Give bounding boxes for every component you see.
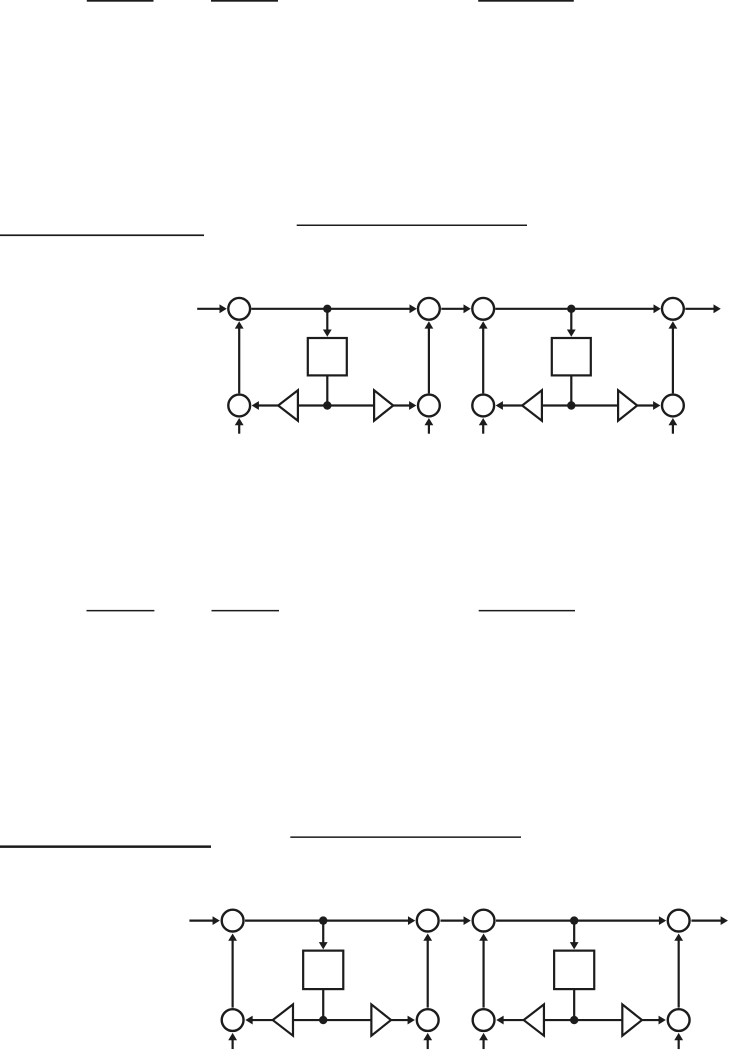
wire D1-S1- bottom-left segment (299, 404, 328, 406)
delay box D1-S1-Z (z^-1 register) (308, 338, 347, 375)
delay box D1-S2-Z (z^-1 register) (552, 338, 591, 375)
adder circle D1-S2-A (top-left summing node) (472, 298, 494, 320)
wire D1-S1- into bottom-left adder with arrowhead (258, 404, 279, 406)
wire D2-S1- into bottom-left adder with arrowhead (252, 1019, 273, 1021)
wire D1-S2- right feedback up-arrow (672, 327, 674, 393)
fraction bar (clipped equation, right) (478, 0, 574, 2)
wire D1-S1- junction-to-delay with arrowhead (326, 309, 328, 331)
arrow D2-S2- input below bottom-right adder (678, 1039, 680, 1049)
wire D1-S2- into bottom-left adder with arrowhead (502, 404, 523, 406)
wire D2-S2- left feedback up-arrow (482, 940, 484, 1008)
adder circle D2-S1-B (top-right summing node) (417, 910, 439, 932)
wire D2-S2- right feedback up-arrow (678, 940, 680, 1008)
node D1-S2-N1 (top pick-off junction) (567, 305, 575, 313)
arrow D2-S1- input below bottom-right adder (427, 1039, 429, 1049)
wire D2-S1- into bottom-right adder with arrowhead (391, 1019, 409, 1021)
adder circle D1-S1-A (top-left summing node) (228, 298, 250, 320)
wire D1-S1- bottom-right segment (327, 404, 374, 406)
adder circle D2-S2-A (top-left summing node) (473, 910, 495, 932)
wire D1-S2- delay-to-bottom-junction (570, 375, 572, 405)
node D2-S1-N1 (top pick-off junction) (319, 916, 327, 924)
node D2-S2-N2 (bottom junction) (570, 1016, 578, 1024)
wire D2-S1- junction-to-delay with arrowhead (322, 921, 324, 944)
wire D2-S2- into bottom-left adder with arrowhead (503, 1019, 524, 1021)
wire D1-S1- top signal line with arrowhead (251, 308, 410, 310)
arrow D2- input x(n) (189, 919, 213, 921)
arrow D2- cascade link between sections (440, 919, 464, 921)
gain triangle D1-S2-G1 (left multiplier, points left) (522, 390, 542, 420)
rule under caption text (right, upper) 2 (290, 836, 521, 838)
node D1-S1-N2 (bottom junction) (323, 401, 331, 409)
adder circle D2-S2-D (bottom-right summing node) (668, 1009, 690, 1031)
wire D1-S1- right feedback up-arrow (428, 327, 430, 393)
adder circle D2-S1-C (bottom-left summing node) (222, 1009, 244, 1031)
node D2-S2-N1 (top pick-off junction) (570, 916, 578, 924)
wire D2-S1- bottom-right segment (323, 1019, 371, 1021)
gain triangle D2-S2-G1 (left multiplier, points left) (524, 1004, 544, 1035)
fraction bar (clipped equation, left) (87, 0, 154, 2)
rule at left margin (lower) 2 (0, 845, 211, 848)
wire D2-S2- top signal line with arrowhead (496, 919, 660, 921)
wire D2-S2- delay-to-bottom-junction (573, 989, 575, 1020)
wire D2-S2- bottom-right segment (574, 1019, 622, 1021)
adder circle D1-S2-C (bottom-left summing node) (472, 395, 494, 417)
arrow D1-S1- input below bottom-left adder (238, 424, 240, 434)
wire D2-S1- bottom-left segment (294, 1019, 324, 1021)
wire D1-S1- into bottom-right adder with arrowhead (393, 404, 410, 406)
wire D2-S1- right feedback up-arrow (427, 940, 429, 1008)
wire D2-S2- into bottom-right adder with arrowhead (642, 1019, 660, 1021)
fraction bar (equation row, middle) (212, 610, 280, 612)
node D2-S1-N2 (bottom junction) (319, 1016, 327, 1024)
gain triangle D2-S2-G2 (right multiplier, points right) (622, 1004, 642, 1035)
wire D1-S2- top signal line with arrowhead (495, 308, 654, 310)
adder circle D2-S1-D (bottom-right summing node) (417, 1009, 439, 1031)
adder circle D1-S2-B (top-right summing node) (662, 298, 684, 320)
gain triangle D2-S1-G2 (right multiplier, points right) (371, 1004, 391, 1035)
fraction bar (equation row, left) (87, 610, 155, 612)
arrow D1-S2- input below bottom-right adder (672, 424, 674, 434)
arrow D1- cascade link between sections (441, 308, 464, 310)
node D1-S1-N1 (top pick-off junction) (323, 305, 331, 313)
adder circle D1-S1-D (bottom-right summing node) (418, 395, 440, 417)
arrow D1- output y(n) (685, 308, 714, 310)
wire D1-S2- left feedback up-arrow (482, 327, 484, 393)
delay box D2-S1-Z (z^-1 register) (303, 951, 343, 989)
adder circle D1-S1-B (top-right summing node) (418, 298, 440, 320)
wire D1-S2- junction-to-delay with arrowhead (570, 309, 572, 331)
wire D1-S2- bottom-right segment (571, 404, 618, 406)
adder circle D2-S1-A (top-left summing node) (222, 910, 244, 932)
node D1-S2-N2 (bottom junction) (567, 401, 575, 409)
wire D2-S1- delay-to-bottom-junction (322, 989, 324, 1020)
wire D1-S2- into bottom-right adder with arrowhead (637, 404, 654, 406)
gain triangle D2-S1-G1 (left multiplier, points left) (273, 1004, 293, 1035)
fraction bar (clipped equation, middle) (211, 0, 278, 2)
adder circle D2-S2-C (bottom-left summing node) (473, 1009, 495, 1031)
arrow D1-S1- input below bottom-right adder (428, 424, 430, 434)
arrow D1-S2- input below bottom-left adder (482, 424, 484, 434)
gain triangle D1-S2-G2 (right multiplier, points right) (618, 390, 637, 420)
wire D2-S2- bottom-left segment (545, 1019, 575, 1021)
rule at left margin (lower) (0, 234, 204, 236)
rule under caption text (right, upper) (297, 225, 527, 227)
gain triangle D1-S1-G2 (right multiplier, points right) (374, 390, 393, 420)
adder circle D1-S1-C (bottom-left summing node) (228, 395, 250, 417)
wire D1-S1- left feedback up-arrow (238, 327, 240, 393)
arrow D2-S2- input below bottom-left adder (482, 1039, 484, 1049)
wire D1-S2- bottom-left segment (543, 404, 572, 406)
adder circle D2-S2-B (top-right summing node) (668, 910, 690, 932)
wire D2-S2- junction-to-delay with arrowhead (573, 921, 575, 944)
adder circle D1-S2-D (bottom-right summing node) (662, 395, 684, 417)
fraction bar (equation row, right) (479, 610, 575, 612)
wire D2-S1- top signal line with arrowhead (245, 919, 409, 921)
delay box D2-S2-Z (z^-1 register) (554, 951, 594, 989)
arrow D2- output y(n) (691, 919, 721, 921)
arrow D2-S1- input below bottom-left adder (232, 1039, 234, 1049)
arrow D1- input x(n) (197, 308, 221, 310)
wire D1-S1- delay-to-bottom-junction (326, 375, 328, 405)
wire D2-S1- left feedback up-arrow (232, 940, 234, 1008)
gain triangle D1-S1-G1 (left multiplier, points left) (278, 390, 298, 420)
